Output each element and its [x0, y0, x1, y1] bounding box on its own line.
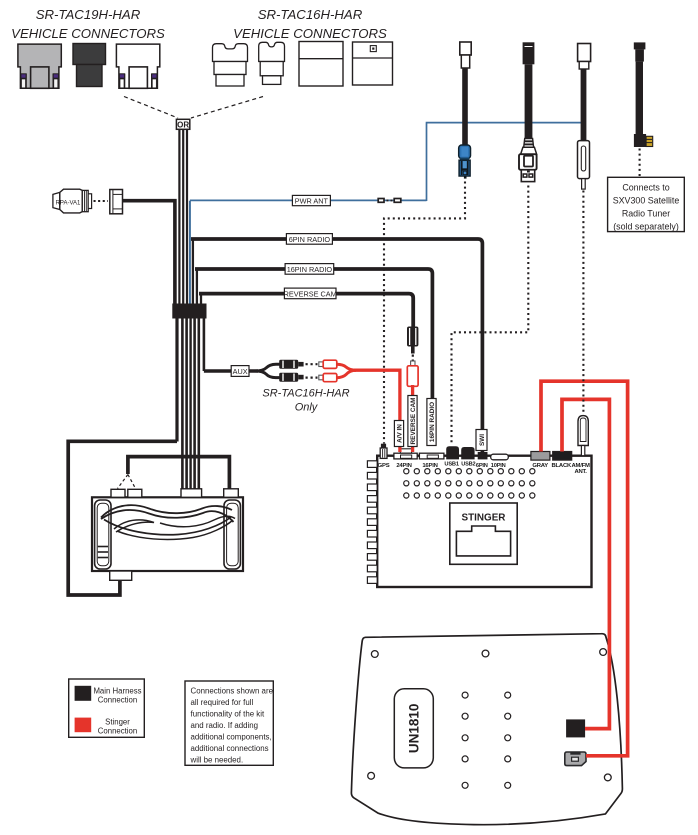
UN1810 radio chassis	[351, 634, 622, 825]
reverse cam red wire	[411, 385, 414, 452]
module right end cap	[224, 500, 240, 569]
svg-text:USB2: USB2	[461, 462, 475, 468]
SWI vertical label	[476, 430, 487, 451]
ground loop wire (left)	[68, 441, 177, 595]
svg-text:SR-TAC16H-HAR: SR-TAC16H-HAR	[258, 7, 363, 22]
radio mounting holes	[368, 649, 611, 781]
GRAY port	[531, 452, 550, 461]
svg-text:Connects to: Connects to	[622, 183, 669, 193]
GRAY port red wire	[541, 381, 628, 756]
svg-text:Connections shown are: Connections shown are	[191, 687, 274, 696]
dashed pointer right	[191, 97, 263, 119]
bundle lines below wrap	[177, 318, 204, 490]
svg-text:SR-TAC19H-HAR: SR-TAC19H-HAR	[36, 7, 141, 22]
radio screw holes	[462, 692, 511, 788]
svg-text:VEHICLE CONNECTORS: VEHICLE CONNECTORS	[233, 26, 387, 41]
module bottom tab	[110, 571, 132, 580]
SXV300 note box	[608, 177, 685, 231]
SXV300 dotted lead	[639, 149, 641, 177]
RPA-VA1 adapter	[53, 189, 92, 213]
title SR-TAC16H-HAR	[233, 7, 387, 41]
vehicle connector 3 (white)	[116, 44, 159, 88]
REVERSE CAM wire	[199, 294, 413, 327]
svg-text:BLACK: BLACK	[551, 463, 572, 469]
svg-text:additional connections: additional connections	[191, 744, 269, 753]
module left end cap	[95, 500, 111, 569]
PWR ANT inline connector	[378, 199, 401, 203]
16PIN RADIO vertical label	[427, 399, 436, 446]
svg-text:Main Harness: Main Harness	[93, 687, 141, 696]
svg-text:(sold separately): (sold separately)	[613, 222, 679, 232]
SXV300 cable	[634, 42, 646, 134]
module wave graphic	[101, 505, 235, 539]
svg-text:SXV300 Satellite: SXV300 Satellite	[613, 196, 680, 206]
svg-text:16PIN RADIO: 16PIN RADIO	[429, 402, 436, 442]
6PIN RADIO label	[286, 234, 332, 245]
vent holes	[404, 469, 535, 499]
svg-text:REVERSE CAM: REVERSE CAM	[284, 289, 337, 298]
REVERSE CAM label	[284, 288, 337, 299]
RPA-VA1 wire	[122, 201, 175, 304]
A/V IN vertical label	[394, 421, 403, 447]
legend box	[69, 679, 145, 737]
USB-A plug	[519, 139, 537, 182]
radio black connector	[566, 719, 585, 737]
16PIN port	[419, 453, 444, 459]
AUX wire	[204, 369, 258, 372]
svg-text:additional components,: additional components,	[191, 733, 272, 742]
title SR-TAC19H-HAR	[11, 7, 165, 41]
BLACK port	[553, 452, 572, 461]
svg-text:SR-TAC16H-HAR: SR-TAC16H-HAR	[262, 388, 349, 400]
BLACK port red wire	[562, 399, 609, 728]
svg-text:RPA-VA1: RPA-VA1	[56, 200, 81, 206]
harness bundle lines	[179, 129, 187, 304]
vehicle connector 6	[299, 42, 343, 87]
svg-text:Stinger: Stinger	[105, 718, 130, 727]
heat sink fins	[367, 461, 377, 584]
reverse cam RCA plug	[407, 327, 418, 354]
svg-text:24PIN: 24PIN	[396, 463, 411, 469]
svg-text:AUX: AUX	[233, 367, 248, 376]
24PIN port	[394, 449, 417, 459]
svg-text:GPS: GPS	[378, 463, 390, 469]
REVERSE CAM vertical label	[408, 396, 417, 447]
16PIN RADIO label	[285, 264, 334, 275]
vehicle connector 5	[259, 42, 285, 84]
dashed pointer left	[124, 97, 178, 119]
module right tab	[224, 489, 239, 498]
reverse cam RCA jack (red)	[407, 361, 418, 386]
6PIN port	[478, 452, 488, 459]
svg-text:PWR ANT: PWR ANT	[295, 196, 329, 205]
PWR ANT blue wire	[190, 123, 581, 304]
USB1 port	[446, 446, 459, 459]
AUX Y-split wires	[255, 364, 280, 377]
vehicle connector 2 (dark)	[73, 44, 106, 87]
AUX dotted gaps	[306, 364, 318, 377]
USB dotted lead	[452, 186, 529, 446]
vehicle connector 4	[213, 44, 248, 86]
6PIN RADIO wire	[191, 239, 482, 453]
A/V IN red wire	[337, 364, 400, 452]
AUX RCA plug lower	[279, 373, 303, 382]
10PIN port	[491, 454, 509, 460]
module top tab A	[111, 489, 125, 497]
RPA-VA1 dotted link	[94, 200, 109, 202]
RPA-VA1 mating connector	[110, 190, 123, 214]
AM/FM DIN plug	[578, 416, 588, 456]
reverse cam dotted gap	[412, 355, 414, 365]
svg-text:6PIN: 6PIN	[476, 463, 488, 469]
svg-text:10PIN: 10PIN	[491, 463, 506, 469]
svg-text:all required for full: all required for full	[191, 698, 254, 707]
antenna plug	[578, 141, 590, 190]
AUX label	[231, 366, 249, 377]
svg-text:GRAY: GRAY	[532, 463, 548, 469]
svg-text:Connection: Connection	[98, 727, 137, 736]
AUX RCA plug upper	[279, 360, 303, 369]
AUX RCA jack upper (red)	[319, 360, 337, 368]
svg-text:UN1810: UN1810	[407, 704, 422, 754]
svg-text:Connection: Connection	[98, 696, 137, 705]
AM/FM antenna cable	[578, 44, 591, 142]
UN1810 label	[394, 689, 433, 768]
harness tape wrap	[172, 304, 206, 319]
GPS antenna cable	[460, 42, 471, 146]
module top tab B	[128, 489, 142, 497]
AUX RCA jack lower (red)	[319, 374, 337, 382]
svg-text:Radio Tuner: Radio Tuner	[622, 209, 670, 219]
svg-text:SWI: SWI	[479, 434, 486, 446]
GPS dotted lead	[384, 182, 465, 444]
OR label	[176, 119, 189, 129]
GPS port plug	[380, 444, 387, 459]
PWR ANT label	[292, 195, 330, 205]
svg-text:and radio. If adding: and radio. If adding	[191, 721, 259, 730]
port labels	[378, 462, 590, 476]
SXV300 right-angle connector	[634, 134, 653, 147]
svg-text:16PIN RADIO: 16PIN RADIO	[287, 265, 333, 274]
svg-text:USB1: USB1	[444, 462, 458, 468]
svg-text:16PIN: 16PIN	[422, 463, 437, 469]
radio gray connector	[565, 752, 586, 766]
USB2 port	[461, 447, 474, 459]
GPS Fakra connector	[459, 145, 471, 179]
SR-TAC16H-HAR Only note	[262, 388, 349, 414]
svg-text:6PIN RADIO: 6PIN RADIO	[289, 235, 331, 244]
crossover wire to side tabs	[128, 457, 229, 489]
svg-text:REVERSE CAM: REVERSE CAM	[410, 398, 417, 445]
vehicle connector 1 (gray)	[18, 44, 61, 88]
svg-text:functionality of the kit: functionality of the kit	[191, 710, 265, 719]
head unit chassis	[377, 456, 591, 587]
svg-text:A/V IN: A/V IN	[396, 424, 403, 443]
module main harness tab	[181, 489, 202, 498]
dashed tab pointers	[118, 475, 136, 489]
STINGER label box	[450, 503, 517, 564]
svg-text:Only: Only	[295, 402, 319, 414]
svg-text:VEHICLE CONNECTORS: VEHICLE CONNECTORS	[11, 26, 165, 41]
svg-text:ANT.: ANT.	[574, 469, 587, 475]
interface module body	[92, 497, 243, 571]
16PIN RADIO wire	[195, 269, 432, 399]
svg-text:OR: OR	[177, 120, 189, 129]
svg-text:will be needed.: will be needed.	[190, 756, 244, 765]
svg-text:STINGER: STINGER	[462, 512, 506, 523]
vehicle connector 7	[353, 42, 393, 85]
USB cable	[523, 42, 535, 139]
antenna dotted lead	[582, 191, 584, 415]
connections note box	[185, 681, 274, 765]
